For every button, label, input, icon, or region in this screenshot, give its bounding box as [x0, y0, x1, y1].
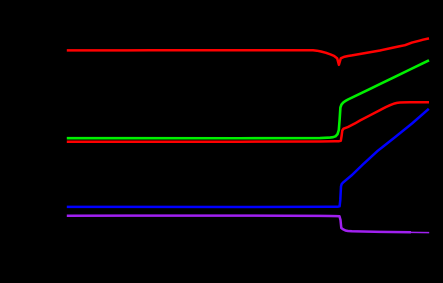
red curve 2 (middle)	[67, 102, 429, 141]
purple curve thin tail	[411, 231, 429, 233]
red curve 1 (top)	[67, 38, 429, 64]
purple curve	[67, 216, 411, 233]
blue curve	[67, 109, 429, 207]
green curve	[67, 60, 429, 138]
